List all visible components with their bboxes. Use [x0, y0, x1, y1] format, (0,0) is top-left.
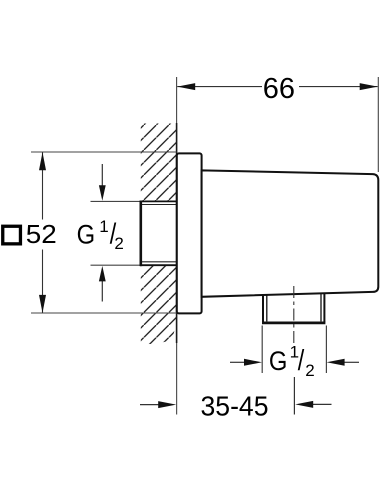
stub inner right (thread): [320, 293, 322, 321]
dim 52 extension bottom: [31, 312, 177, 314]
stub G1/2 arrow right (pointing left): [344, 361, 359, 363]
stub G1/2 extension right: [325, 326, 327, 374]
dim 66 arrow left: [177, 83, 195, 90]
stub G1/2 arrow left (pointing right): [230, 361, 245, 363]
svg-text:52: 52: [26, 219, 57, 249]
dim 52 line lower segment: [42, 250, 44, 313]
dim 52 arrow down: [39, 295, 46, 313]
socket extension line bottom: [91, 264, 142, 266]
wall hatching lower: [141, 265, 177, 344]
dim 52 square symbol: [3, 226, 21, 244]
socket left edge: [140, 201, 143, 267]
socket inner top (thread): [141, 204, 177, 206]
dim 52 arrow up: [39, 152, 46, 170]
dim 66 extension right: [377, 77, 379, 172]
stub G1/2 extension left: [261, 326, 263, 374]
dim 52 line upper segment: [42, 153, 44, 220]
dim 52 extension top: [31, 151, 177, 153]
inner G1/2 arrow up: [101, 280, 103, 302]
dim 66 line left segment: [177, 86, 262, 88]
socket outer bottom: [140, 264, 177, 266]
stub outer right: [323, 293, 325, 322]
stub bottom: [262, 321, 325, 324]
flange: [177, 153, 202, 313]
stub centerline: [293, 286, 295, 343]
socket outer top: [140, 200, 177, 202]
socket extension line top: [91, 200, 142, 202]
dim 66 arrow right: [360, 83, 378, 90]
dim 35-45 arrow left (pointing right at wall face): [140, 404, 160, 406]
stub outer left: [262, 295, 264, 323]
svg-text:66: 66: [263, 73, 295, 105]
socket inner bottom (thread): [141, 261, 177, 263]
dim 66 extension left: [176, 77, 178, 123]
dim 66 line right segment: [299, 86, 378, 88]
wall hatching upper: [141, 124, 177, 202]
inner G1/2 arrow down: [101, 164, 103, 187]
body: [202, 170, 379, 296]
wall face line: [176, 123, 178, 343]
stub inner left (thread): [266, 295, 268, 321]
centerline dash below G1/2 text: [293, 377, 295, 415]
svg-text:35-45: 35-45: [201, 391, 269, 422]
dim 35-45 arrow right (pointing left at centerline): [313, 403, 332, 405]
